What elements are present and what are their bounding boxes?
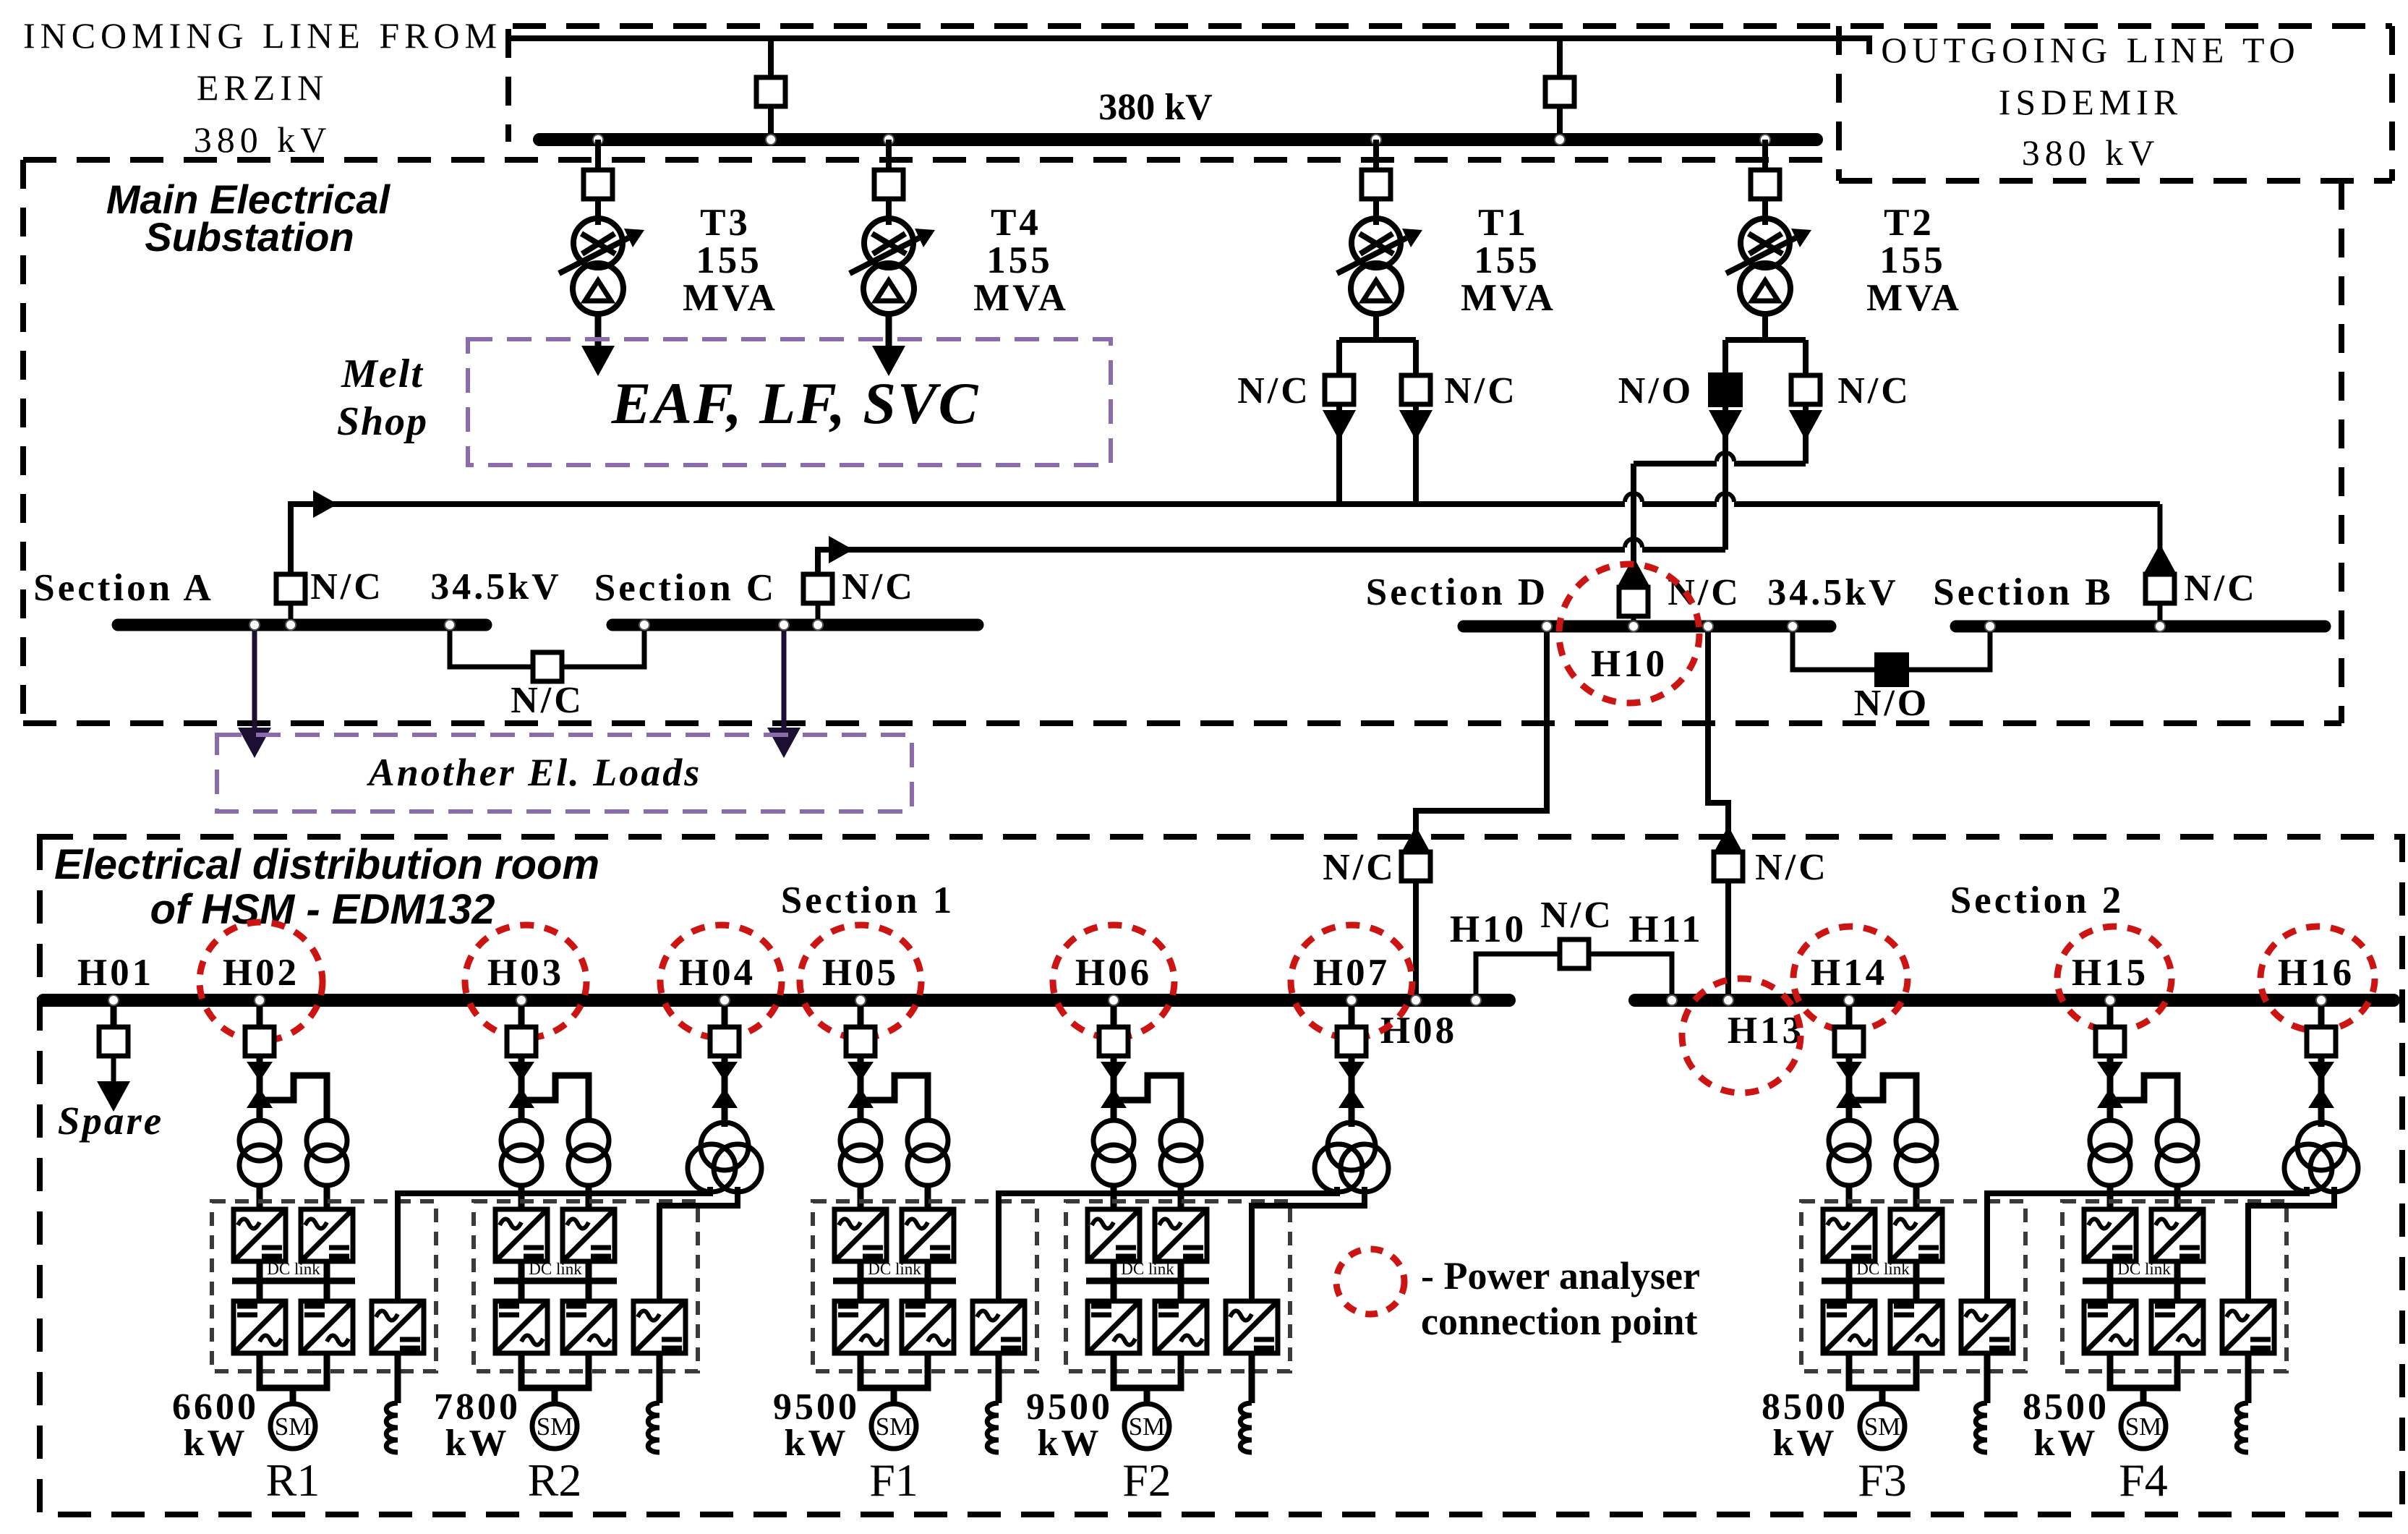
svg-text:MVA: MVA: [683, 277, 778, 319]
svg-text:Section 1: Section 1: [781, 879, 955, 921]
A-C bus tie with N/C switch: [450, 631, 644, 667]
svg-text:N/C: N/C: [310, 566, 384, 608]
svg-text:kW: kW: [1773, 1423, 1837, 1464]
svg-text:6600: 6600: [172, 1386, 259, 1428]
svg-text:of HSM - EDM132: of HSM - EDM132: [150, 886, 495, 933]
hops: [1625, 459, 1734, 555]
T2 horizontal to Section D riser: [1634, 461, 1806, 466]
Section C bus: [612, 619, 978, 631]
transformer T2 155 MVA: [1726, 140, 1962, 340]
exciter wire H16 to F4: [2248, 1187, 2334, 1301]
svg-text:N/C: N/C: [1837, 370, 1911, 412]
transformer T4 155 MVA: [850, 140, 1069, 376]
red circles: [200, 922, 323, 1041]
outgoing box right dashed edge: [2389, 26, 2395, 181]
Section D incoming arrow and N/C switch: [1617, 557, 1650, 587]
svg-text:kW: kW: [785, 1423, 849, 1464]
Section 1 bus: [43, 994, 1509, 1007]
svg-text:kW: kW: [2034, 1423, 2099, 1464]
svg-text:F1: F1: [869, 1454, 918, 1506]
svg-text:N/O: N/O: [1854, 683, 1929, 724]
converter group R1 (H02): [212, 1057, 436, 1452]
svg-text:155: 155: [1474, 239, 1540, 281]
svg-text:MVA: MVA: [1866, 277, 1962, 319]
svg-text:H07: H07: [1313, 952, 1390, 994]
svg-text:380 kV: 380 kV: [2022, 132, 2160, 173]
Section A incoming N/C switch: [276, 574, 305, 603]
svg-text:Section D: Section D: [1366, 571, 1548, 613]
svg-text:ISDEMIR: ISDEMIR: [1999, 82, 2183, 122]
svg-text:Section B: Section B: [1933, 571, 2113, 613]
svg-text:OUTGOING LINE TO: OUTGOING LINE TO: [1881, 30, 2300, 70]
svg-text:8500: 8500: [1762, 1386, 1848, 1428]
svg-text:Section A: Section A: [33, 567, 213, 609]
svg-text:T4: T4: [991, 202, 1041, 244]
Section 2 bus: [1635, 994, 2394, 1007]
three-winding exciter transformers H04 H07 H16: [688, 1056, 2358, 1192]
Section A load drop arrow: [252, 631, 257, 728]
Section B bus: [1956, 621, 2325, 633]
T2 secondary branches with N/O and N/C switches: [1618, 340, 1911, 464]
svg-text:H14: H14: [1811, 952, 1887, 994]
svg-text:N/C: N/C: [1755, 847, 1829, 888]
svg-text:8500: 8500: [2023, 1386, 2109, 1428]
EDM132 room dashed box: [40, 837, 2402, 1514]
svg-text:N/C: N/C: [842, 566, 915, 608]
feeder H01 spare: [111, 1006, 117, 1026]
D riser: [1631, 464, 1636, 588]
svg-text:INCOMING LINE FROM: INCOMING LINE FROM: [23, 15, 502, 56]
svg-text:Shop: Shop: [337, 399, 428, 444]
feeder switches: [245, 1006, 2336, 1056]
top dashed line: [513, 23, 2392, 29]
svg-text:H13: H13: [1728, 1010, 1804, 1052]
svg-text:kW: kW: [445, 1423, 510, 1464]
converter group F1 (H05): [813, 1057, 1037, 1452]
svg-text:T3: T3: [700, 202, 751, 244]
D-B bus tie with N/O switch: [1793, 632, 1990, 670]
svg-text:H02: H02: [223, 952, 299, 994]
svg-text:H08: H08: [1380, 1010, 1457, 1052]
section B riser: [2158, 504, 2163, 550]
svg-text:9500: 9500: [773, 1386, 860, 1428]
svg-text:R1: R1: [266, 1454, 320, 1506]
svg-text:T2: T2: [1884, 202, 1934, 244]
wire to Section C: [818, 550, 1725, 575]
outgoing box left dashed edge: [1836, 26, 1842, 181]
exciter wire H04 to R1: [398, 1187, 710, 1301]
melt shop dashed box: [468, 339, 1111, 465]
legend red dashed circle: [1336, 1249, 1404, 1314]
svg-text:155: 155: [1879, 239, 1946, 281]
svg-text:connection point: connection point: [1421, 1300, 1698, 1343]
svg-text:ERZIN: ERZIN: [197, 67, 328, 108]
svg-text:Substation: Substation: [145, 214, 354, 260]
svg-text:Melt: Melt: [341, 351, 424, 396]
converter group F4 (H15): [2062, 1057, 2287, 1452]
Another El. Loads dashed box: [217, 735, 912, 811]
svg-text:H05: H05: [822, 952, 899, 994]
converter group F2 (H06): [1066, 1057, 1290, 1452]
exciter wire H07 to F1: [999, 1187, 1337, 1301]
Section A bus: [118, 619, 486, 631]
svg-text:N/C: N/C: [1668, 572, 1741, 613]
Section C incoming N/C switch: [803, 574, 832, 603]
svg-text:F4: F4: [2119, 1454, 2168, 1506]
svg-text:H16: H16: [2278, 952, 2354, 994]
svg-text:N/C: N/C: [1444, 370, 1518, 412]
svg-text:H15: H15: [2072, 952, 2148, 994]
svg-text:155: 155: [986, 239, 1053, 281]
svg-text:Spare: Spare: [58, 1099, 163, 1143]
transformer T3 155 MVA: [559, 140, 778, 376]
svg-text:Another El. Loads: Another El. Loads: [367, 751, 702, 794]
outgoing box bottom dashed: [1839, 178, 2392, 184]
svg-text:9500: 9500: [1026, 1386, 1113, 1428]
svg-text:N/C: N/C: [511, 680, 584, 721]
svg-text:155: 155: [696, 239, 762, 281]
svg-text:N/O: N/O: [1618, 370, 1694, 412]
svg-text:34.5kV: 34.5kV: [430, 566, 561, 608]
svg-text:H01: H01: [77, 952, 154, 994]
svg-text:EAF, LF, SVC: EAF, LF, SVC: [611, 370, 980, 436]
top solid wire: [510, 38, 1869, 54]
svg-text:F3: F3: [1858, 1454, 1907, 1506]
Section D drop to H08 with N/C switch: [1416, 632, 1547, 994]
svg-text:34.5kV: 34.5kV: [1767, 572, 1898, 613]
380kV bus: [539, 133, 1816, 146]
T1 secondary branches with N/C switches: [1237, 340, 1518, 504]
svg-text:T1: T1: [1478, 202, 1529, 244]
svg-text:- Power analyser: - Power analyser: [1421, 1254, 1700, 1297]
svg-text:H10: H10: [1450, 908, 1527, 950]
incoming box right dashed edge: [505, 29, 511, 142]
svg-text:Section 2: Section 2: [1950, 879, 2125, 921]
svg-text:380 kV: 380 kV: [1098, 87, 1212, 128]
svg-text:H04: H04: [679, 952, 756, 994]
svg-text:H11: H11: [1628, 908, 1703, 950]
H10-H11 bus bridge with N/C switch: [1476, 954, 1672, 1000]
svg-text:MVA: MVA: [1461, 277, 1556, 319]
svg-text:R2: R2: [528, 1454, 582, 1506]
converter group R2 (H03): [474, 1057, 698, 1452]
svg-text:N/C: N/C: [2184, 568, 2258, 609]
svg-text:Electrical distribution room: Electrical distribution room: [54, 841, 599, 888]
svg-text:H06: H06: [1075, 952, 1152, 994]
svg-text:kW: kW: [1038, 1423, 1102, 1464]
Section B incoming arrow and N/C switch: [2143, 544, 2177, 574]
svg-text:H10: H10: [1591, 643, 1668, 685]
Section D bus: [1464, 621, 1830, 633]
svg-text:N/C: N/C: [1323, 847, 1396, 888]
svg-text:MVA: MVA: [973, 277, 1069, 319]
wire drop to bus right: [1557, 38, 1563, 140]
power analyser point H10 red circle: [1559, 564, 1699, 703]
T2 N/O branch vertical: [1722, 434, 1728, 550]
Section D drop to H13 with N/C switch: [1708, 632, 1728, 994]
svg-text:Section C: Section C: [594, 567, 777, 609]
svg-text:N/C: N/C: [1540, 895, 1614, 936]
svg-text:7800: 7800: [434, 1386, 521, 1428]
substation dashed box: [23, 157, 1839, 163]
svg-text:kW: kW: [184, 1423, 248, 1464]
svg-text:F2: F2: [1122, 1454, 1171, 1506]
exciter wire H07 to F2: [1252, 1187, 1365, 1301]
wire drop to bus left: [768, 38, 774, 140]
transformer T1 155 MVA: [1337, 140, 1556, 340]
wire to Section A / Section B (34.5kV tie wire): [291, 504, 2160, 575]
svg-text:N/C: N/C: [1237, 370, 1311, 412]
svg-text:H03: H03: [487, 952, 564, 994]
converter group F3 (H14): [1801, 1057, 2025, 1452]
exciter wire H04 to R2: [659, 1187, 738, 1301]
bus dots section1/2: [108, 995, 119, 1005]
exciter wire H16 to F3: [1987, 1187, 2307, 1301]
Section C load drop arrow: [782, 631, 787, 728]
svg-text:380 kV: 380 kV: [194, 119, 332, 160]
